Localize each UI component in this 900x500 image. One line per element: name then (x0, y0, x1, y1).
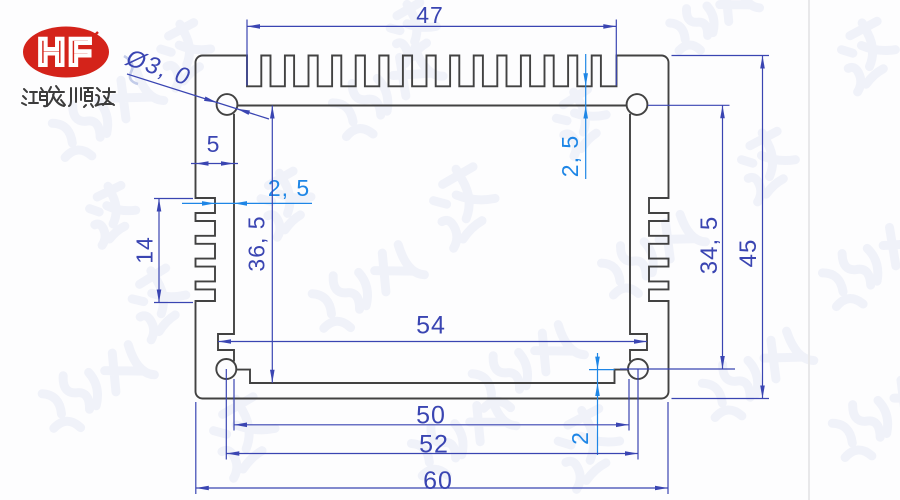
svg-text:2: 2 (567, 431, 593, 445)
svg-text:34, 5: 34, 5 (696, 216, 723, 274)
screw hole top-right (627, 94, 648, 115)
dim 36,5 inner cavity height (271, 106, 273, 383)
dim 60 overall width (195, 402, 197, 494)
dim 47 top fins width (246, 20, 248, 86)
dim leader diameter 3.0 screw hole (127, 74, 269, 119)
svg-text:5: 5 (207, 131, 221, 157)
svg-text:52: 52 (419, 431, 449, 459)
inner right wall with lid groove notch (630, 114, 647, 362)
dim 54 inner groove span (218, 341, 647, 343)
company name characters (22, 86, 115, 107)
inner top wall (238, 105, 627, 107)
svg-text:47: 47 (416, 2, 444, 28)
screw hole bottom-right (628, 359, 648, 379)
logo HF ellipse (23, 27, 109, 78)
dim 2,5 left groove depth (182, 202, 312, 204)
enclosure profile outer outline with heatsink fins (196, 56, 669, 399)
svg-text:60: 60 (423, 467, 453, 495)
dim 50 inner cavity width (233, 379, 235, 431)
svg-text:36, 5: 36, 5 (244, 215, 270, 271)
inner bottom floor with screw-boss steps (236, 370, 628, 383)
svg-text:54: 54 (416, 312, 446, 340)
dim 5 left wall thickness (191, 163, 238, 165)
screw hole top-left (217, 94, 238, 115)
dim 52 screw hole spacing (225, 369, 227, 460)
dim 34,5 hole center spacing (648, 104, 730, 106)
svg-text:2, 5: 2, 5 (557, 135, 583, 177)
svg-text:2, 5: 2, 5 (268, 175, 310, 201)
svg-text:45: 45 (735, 239, 762, 268)
inner left wall with lid groove notch (218, 114, 234, 362)
faint page seam line (808, 0, 810, 500)
svg-text:50: 50 (416, 402, 446, 430)
dim 14 left groove span (154, 198, 193, 200)
svg-text:HF: HF (38, 32, 95, 74)
dim 2,5 top wall thickness (585, 54, 587, 179)
screw hole bottom-left (216, 359, 236, 379)
svg-text:14: 14 (132, 236, 158, 264)
faint blue swirl watermark near logo (124, 56, 138, 84)
dim 2 floor step height (589, 369, 615, 371)
dim 45 overall height (672, 55, 770, 57)
